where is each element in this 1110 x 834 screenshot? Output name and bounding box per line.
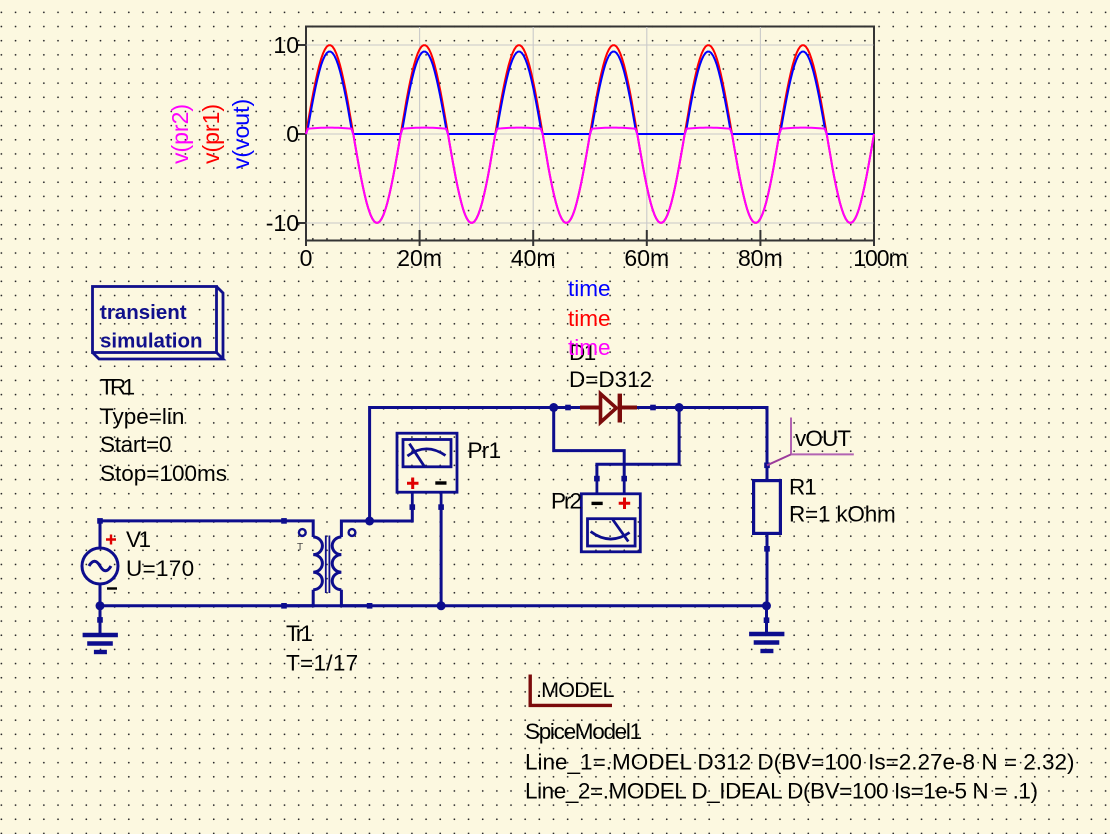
ground left stub bbox=[99, 606, 102, 633]
svg-text:Pr2: Pr2 bbox=[551, 489, 582, 514]
resistor R1 bbox=[754, 481, 781, 534]
svg-text:0: 0 bbox=[286, 121, 299, 147]
diode left pin square bbox=[565, 405, 571, 411]
svg-text:time: time bbox=[568, 335, 611, 360]
label vOUT text bbox=[795, 426, 851, 451]
junction diode left bbox=[549, 403, 558, 412]
junction Pr1 bottom bbox=[437, 601, 446, 610]
diode right pin square bbox=[650, 405, 656, 411]
transformer Tr1 core bbox=[326, 536, 330, 594]
R1 bottom pin square bbox=[764, 546, 770, 552]
V1 plus bbox=[106, 535, 116, 545]
TR1 parameter text bbox=[100, 375, 227, 487]
y legend v(pr2) bbox=[167, 104, 193, 164]
wire top V1 to Tr1 bbox=[100, 519, 284, 522]
wire V1 vertical bbox=[99, 521, 102, 549]
svg-text:60m: 60m bbox=[624, 245, 669, 271]
svg-text:V1: V1 bbox=[126, 527, 151, 552]
label vOUT pointer bbox=[767, 454, 791, 465]
diode right lead bbox=[637, 406, 679, 409]
transient simulation text bbox=[100, 301, 203, 353]
transformer primary pin squares bbox=[281, 518, 287, 609]
curve v(pr1) red bbox=[306, 45, 874, 223]
V1 labels bbox=[126, 527, 194, 581]
y legend v(pr1) bbox=[198, 104, 224, 164]
wire V1 to bottom rail bbox=[99, 583, 102, 606]
Pr1 label bbox=[468, 438, 501, 463]
transient simulation box bbox=[93, 287, 224, 360]
ground left pin square bbox=[97, 617, 103, 623]
wire diode right to R1 corner bbox=[679, 408, 767, 481]
.MODEL frame bbox=[530, 675, 612, 706]
svg-text:R1: R1 bbox=[789, 475, 816, 500]
transformer polarity dots bbox=[299, 529, 356, 536]
svg-text:Start=0: Start=0 bbox=[100, 432, 171, 457]
R1 labels bbox=[789, 475, 896, 527]
transformer Tr1 secondary bbox=[332, 521, 369, 606]
label vOUT marker bbox=[791, 418, 854, 455]
ground right pin square bbox=[764, 617, 770, 623]
wire R1 bottom bbox=[766, 533, 769, 605]
svg-text:Pr1: Pr1 bbox=[468, 438, 501, 463]
svg-text:time: time bbox=[568, 306, 611, 331]
x axis ticks bbox=[306, 230, 874, 246]
y axis labels bbox=[266, 32, 299, 236]
transformer secondary bottom pin square bbox=[367, 603, 373, 609]
wire Pr1 right pin down bbox=[440, 507, 443, 606]
Pr1 pin squares bbox=[410, 504, 444, 510]
V1 top pin square bbox=[97, 518, 103, 524]
svg-text:Stop=100ms: Stop=100ms bbox=[100, 461, 227, 486]
x legend time red bbox=[568, 306, 611, 331]
plot frame bbox=[306, 27, 874, 241]
svg-text:vOUT: vOUT bbox=[795, 426, 851, 451]
plot vertical gridlines bbox=[420, 27, 761, 240]
transformer T mark bbox=[297, 542, 303, 553]
svg-text:v(pr1): v(pr1) bbox=[198, 104, 224, 164]
svg-text:R=1 kOhm: R=1 kOhm bbox=[789, 502, 896, 527]
Pr1 plus bbox=[407, 478, 419, 490]
svg-text:Line_1=.MODEL D312 D(BV=100 Is: Line_1=.MODEL D312 D(BV=100 Is=2.27e-8 N… bbox=[525, 750, 1075, 775]
junction V1 bottom bbox=[96, 601, 105, 610]
ground right bbox=[749, 634, 784, 651]
svg-text:T: T bbox=[297, 542, 303, 553]
svg-text:0: 0 bbox=[300, 245, 313, 271]
svg-text:10: 10 bbox=[273, 32, 299, 58]
curve v(vout) blue bbox=[306, 52, 874, 134]
svg-text:SpiceModel1: SpiceModel1 bbox=[525, 719, 642, 744]
svg-text:Line_2=.MODEL D_IDEAL D(BV=100: Line_2=.MODEL D_IDEAL D(BV=100 Is=1e-5 N… bbox=[525, 779, 1038, 804]
svg-text:time: time bbox=[568, 276, 611, 301]
diode D1 lead left bbox=[554, 406, 580, 409]
svg-text:-10: -10 bbox=[266, 210, 299, 236]
node vOUT square bbox=[764, 463, 770, 469]
svg-text:.MODEL: .MODEL bbox=[536, 678, 614, 702]
svg-text:simulation: simulation bbox=[100, 330, 203, 353]
x legend time magenta bbox=[568, 335, 611, 360]
curve v(pr2) magenta bbox=[306, 128, 874, 223]
V1 minus bbox=[107, 587, 117, 589]
transformer Tr1 primary bbox=[284, 521, 322, 606]
svg-text:v(pr2): v(pr2) bbox=[167, 104, 193, 164]
svg-text:80m: 80m bbox=[738, 245, 783, 271]
Pr2 pin squares bbox=[594, 476, 627, 482]
svg-text:U=170: U=170 bbox=[126, 556, 194, 581]
wire secondary top to Pr1 left pin bbox=[370, 507, 413, 521]
.MODEL text bbox=[536, 678, 614, 702]
junction R1 bottom bbox=[762, 601, 771, 610]
svg-text:Type=lin: Type=lin bbox=[100, 404, 184, 429]
Pr2 label bbox=[551, 489, 582, 514]
y legend v(vout) bbox=[228, 99, 254, 169]
voltmeter Pr2 bbox=[581, 479, 640, 552]
x legend time blue bbox=[568, 276, 611, 301]
SpiceModel1 text bbox=[525, 719, 1075, 804]
source V1 bbox=[82, 548, 118, 584]
junction secondary top bbox=[365, 517, 374, 526]
svg-text:20m: 20m bbox=[397, 245, 442, 271]
wire diode right to Pr2 minus bbox=[597, 408, 679, 479]
svg-text:TR1: TR1 bbox=[100, 375, 135, 400]
ground right stub bbox=[765, 606, 768, 632]
ground left bbox=[83, 635, 118, 652]
voltmeter Pr1 bbox=[397, 433, 457, 507]
svg-text:transient: transient bbox=[100, 301, 187, 324]
Tr1 labels bbox=[286, 621, 358, 676]
svg-text:T=1/17: T=1/17 bbox=[286, 651, 358, 676]
diode name D1 bbox=[569, 340, 596, 365]
svg-text:40m: 40m bbox=[511, 245, 556, 271]
plot horizontal gridlines bbox=[307, 45, 874, 223]
diode D1 bbox=[580, 394, 637, 423]
svg-text:Tr1: Tr1 bbox=[286, 621, 312, 646]
x axis labels bbox=[300, 245, 907, 271]
Pr2 plus bbox=[619, 498, 631, 510]
Pr1 minus bbox=[435, 481, 446, 484]
svg-text:100m: 100m bbox=[853, 245, 907, 271]
diode value D=D312 bbox=[569, 367, 652, 392]
svg-text:v(vout): v(vout) bbox=[228, 99, 254, 169]
wire diode left to Pr2 plus bbox=[554, 408, 625, 479]
y axis ticks bbox=[296, 45, 306, 223]
junction diode right bbox=[675, 403, 684, 412]
bottom rail wire bbox=[100, 604, 767, 607]
Pr2 minus bbox=[592, 502, 603, 505]
wire riser to diode row bbox=[370, 408, 554, 522]
svg-text:D=D312: D=D312 bbox=[569, 367, 652, 392]
